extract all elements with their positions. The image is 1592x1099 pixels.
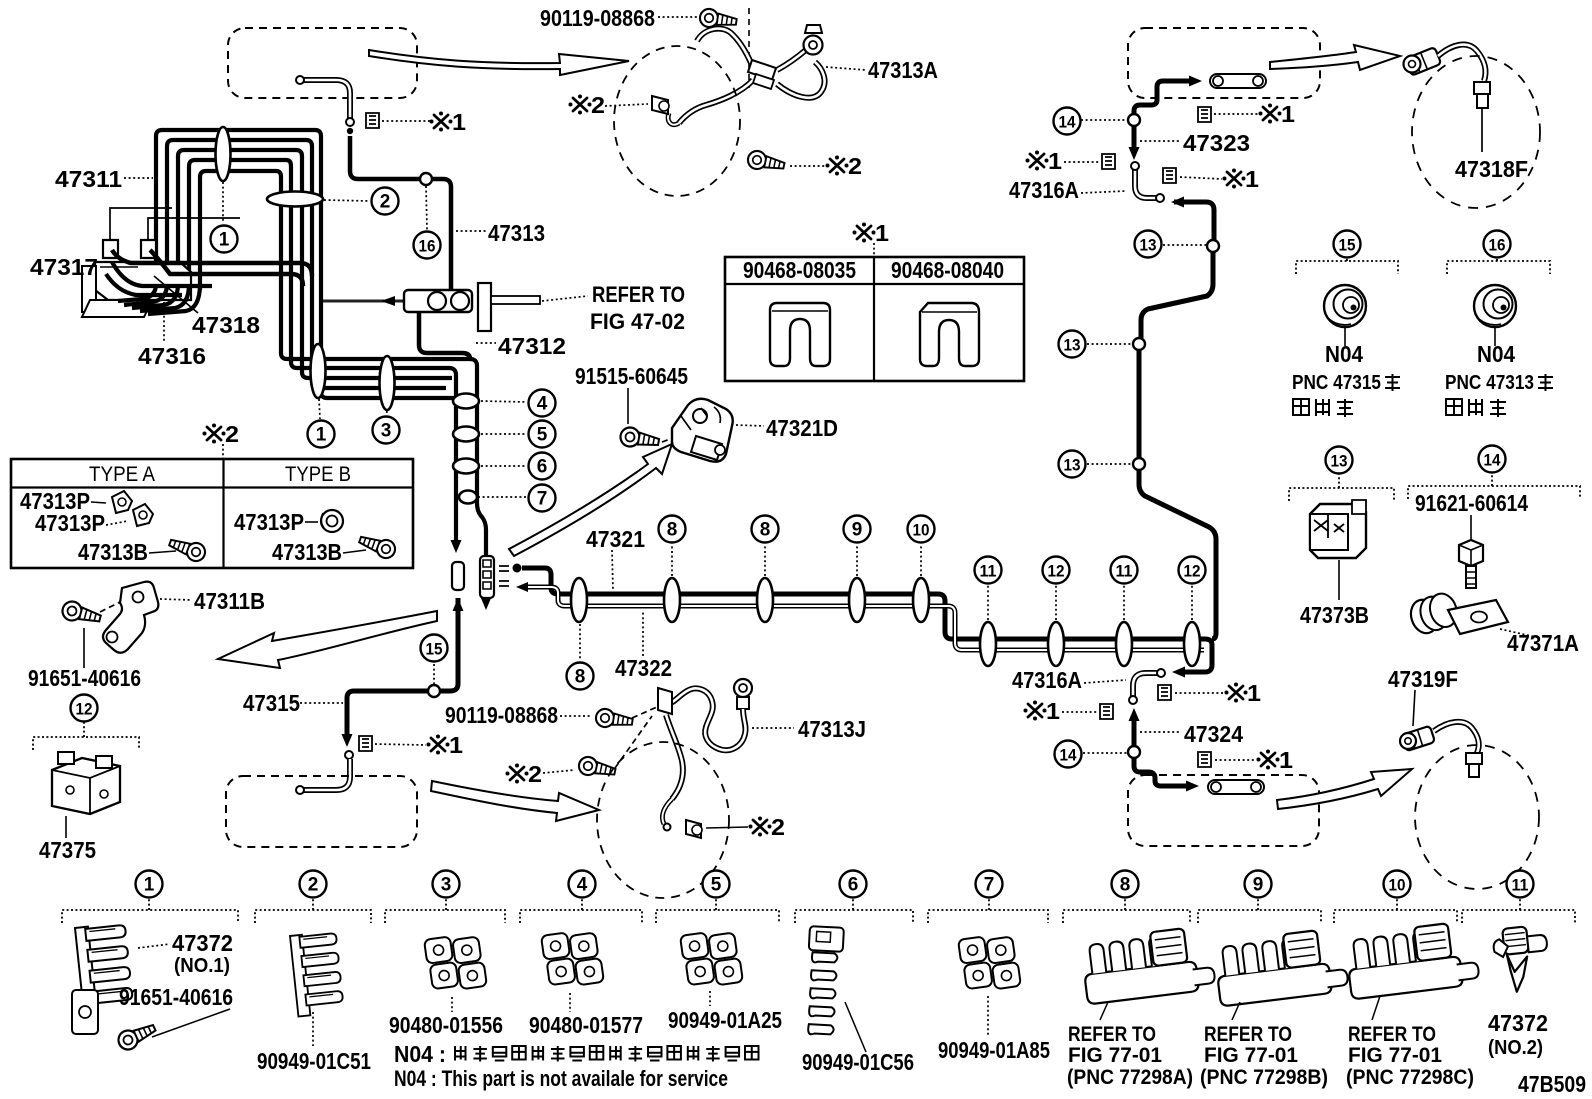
svg-text:5: 5 xyxy=(711,875,722,896)
circled 15 xyxy=(421,635,448,662)
svg-text:13: 13 xyxy=(1331,452,1348,471)
svg-text:8: 8 xyxy=(575,667,586,688)
hose end hook (front) xyxy=(668,113,679,125)
svg-text:47324: 47324 xyxy=(1184,721,1243,747)
tube 47321 (rear line No.1) xyxy=(522,568,1212,672)
node clamp 13a xyxy=(1207,240,1219,252)
svg-text:47318: 47318 xyxy=(192,312,260,338)
circled 5 (row) xyxy=(703,871,730,898)
label 47372 (NO.1) xyxy=(138,944,170,948)
caliper dashed ellipse (47318F) xyxy=(1412,56,1540,208)
circled 13 (parts column) xyxy=(1326,447,1353,474)
clamp 47373B xyxy=(1310,504,1366,558)
svg-text:1: 1 xyxy=(219,230,230,251)
brake master cylinder 47317 assembly xyxy=(95,262,191,300)
parts table 90468-08035 / 90468-08040 xyxy=(725,257,1024,381)
svg-text:REFER TO: REFER TO xyxy=(1204,1023,1292,1046)
svg-text:2: 2 xyxy=(591,92,605,118)
svg-text:47311B: 47311B xyxy=(194,588,265,614)
circled 6 (row) xyxy=(840,871,867,898)
pipe 47316A (lower) xyxy=(1133,673,1158,697)
svg-text:5: 5 xyxy=(537,425,548,446)
banjo fitting of 47313A xyxy=(804,36,823,55)
circled 14 (parts column) xyxy=(1479,446,1506,473)
clamp 12b xyxy=(1184,622,1200,666)
caliper region dashed ellipse (rear) xyxy=(597,742,729,898)
clamp 47372 (No.2) xyxy=(1492,924,1552,993)
tube bundle 47311 (5 brake tubes) xyxy=(156,130,460,398)
bolt 91621-60614 xyxy=(1459,540,1483,566)
circled 11 (row) xyxy=(1507,871,1534,898)
circled 3 (row) xyxy=(433,871,460,898)
proportioning valve assembly xyxy=(404,290,472,312)
svg-text:90468-08035: 90468-08035 xyxy=(743,257,856,283)
svg-text:11: 11 xyxy=(1512,876,1529,895)
svg-text:14: 14 xyxy=(1059,113,1076,132)
circled 10 xyxy=(908,516,935,543)
svg-text:PNC 47313: PNC 47313 xyxy=(1445,372,1534,394)
clamp 3 on lower band xyxy=(380,356,395,410)
U-clip 90468-08040 xyxy=(920,303,979,366)
tube 47313 rear run xyxy=(1171,197,1184,208)
label 47321 xyxy=(612,550,613,590)
node clamp 14 (lower) xyxy=(1128,746,1140,758)
svg-text:(PNC 77298B): (PNC 77298B) xyxy=(1200,1066,1328,1089)
svg-text:14: 14 xyxy=(1484,451,1501,470)
clamp PNC 77298A xyxy=(1080,925,1216,1004)
svg-text:11: 11 xyxy=(980,562,997,581)
grommet N04 (PNC 47315) xyxy=(1324,285,1366,327)
svg-text:8: 8 xyxy=(1120,875,1131,896)
circled 4 xyxy=(529,390,556,417)
circled 6 xyxy=(529,453,556,480)
body connector ※1 (right lower c) xyxy=(1198,752,1211,767)
junction block 47375 xyxy=(52,758,120,814)
svg-text:1: 1 xyxy=(1245,166,1259,192)
node for clamp 16 xyxy=(420,173,432,185)
flexible hose 47313J xyxy=(666,688,746,750)
svg-text:47318F: 47318F xyxy=(1455,156,1528,182)
clamp 47371A xyxy=(1407,590,1461,637)
svg-text:N04: N04 xyxy=(1477,341,1515,367)
svg-text:13: 13 xyxy=(1064,336,1081,355)
svg-text:47323: 47323 xyxy=(1183,130,1250,156)
table TYPE A / TYPE B xyxy=(11,459,413,568)
svg-text:47321D: 47321D xyxy=(766,415,838,441)
svg-text:47373B: 47373B xyxy=(1300,602,1369,628)
svg-text:16: 16 xyxy=(419,237,436,256)
hatched tube into valve xyxy=(323,300,404,303)
svg-text:8: 8 xyxy=(760,520,771,541)
svg-text:1: 1 xyxy=(1046,698,1060,724)
circled 16 (parts column) xyxy=(1484,231,1511,258)
svg-text:2: 2 xyxy=(528,761,542,787)
svg-text:8: 8 xyxy=(667,520,678,541)
svg-text:47375: 47375 xyxy=(39,837,96,863)
label 47318 xyxy=(154,276,198,313)
circled 8 xyxy=(752,516,779,543)
circled 12 xyxy=(1179,557,1206,584)
body connector ※1 (right top b) xyxy=(1030,154,1044,167)
tube 47312 xyxy=(419,312,470,359)
svg-text:9: 9 xyxy=(1253,875,1264,896)
svg-text:1: 1 xyxy=(1281,101,1295,127)
body connector ※1 (right lower b) xyxy=(1028,704,1042,717)
screw 91651-40616 (row) xyxy=(115,1019,158,1052)
body panel outline (front left, dashed) xyxy=(228,28,417,98)
clamp 10 xyxy=(913,578,929,622)
svg-text:47313: 47313 xyxy=(488,220,545,246)
clamp 5 xyxy=(453,427,479,442)
clamp 4 on tube pair xyxy=(453,394,479,409)
body panel outline (rear left, dashed) xyxy=(226,776,417,847)
svg-text:1: 1 xyxy=(875,220,889,246)
label 47313 xyxy=(456,230,486,232)
svg-text:13: 13 xyxy=(1140,236,1157,255)
clamp PNC 77298C xyxy=(1344,920,1480,999)
body connector ※1 (right top c) xyxy=(1163,168,1176,183)
svg-text:FIG 77-01: FIG 77-01 xyxy=(1348,1044,1442,1067)
svg-text:11: 11 xyxy=(1116,562,1133,581)
clamp 8c xyxy=(757,578,773,622)
svg-text:(NO.1): (NO.1) xyxy=(174,955,230,977)
alignment dashed line xyxy=(748,8,750,88)
svg-text:3: 3 xyxy=(381,421,392,442)
banjo bolt of 47313J xyxy=(734,679,752,697)
circled 10 (row) xyxy=(1384,871,1411,898)
bolt ※2 (front lower) xyxy=(746,149,786,174)
outlet port fittings on 47317 xyxy=(103,240,156,258)
grommet N04 (PNC 47313) xyxy=(1474,285,1516,327)
body connector ※1 (near 47315) xyxy=(359,736,372,751)
label 47373B xyxy=(1338,560,1340,600)
svg-text:90119-08868: 90119-08868 xyxy=(540,5,655,31)
svg-text:47372: 47372 xyxy=(1488,1010,1548,1036)
circled 13c xyxy=(1059,451,1086,478)
pipe 47316A (upper) xyxy=(1135,167,1157,198)
circled 5 xyxy=(529,421,556,448)
flexible hose 47313A xyxy=(697,29,751,63)
svg-text:1: 1 xyxy=(316,425,327,446)
body panel outline (rear right bottom, dashed) xyxy=(1128,775,1319,846)
svg-text:4: 4 xyxy=(577,875,588,896)
svg-text:1: 1 xyxy=(1247,680,1261,706)
label 47321D xyxy=(736,425,764,426)
svg-text:91621-60614: 91621-60614 xyxy=(1415,490,1528,516)
tube continuation arrows (to rear) xyxy=(451,540,462,553)
svg-text:47313J: 47313J xyxy=(798,716,866,742)
circled 12 with bracket (47375) xyxy=(71,695,98,722)
clamp 7 xyxy=(459,491,477,504)
svg-text:N04 :: N04 : xyxy=(394,1041,446,1067)
tube into rear panel xyxy=(1134,758,1188,786)
svg-text:90480-01556: 90480-01556 xyxy=(389,1012,503,1038)
svg-text:90949-01A85: 90949-01A85 xyxy=(938,1037,1050,1063)
svg-text:12: 12 xyxy=(76,700,93,719)
clamp 6 xyxy=(453,459,479,474)
detail arrow to 47321D xyxy=(509,444,672,556)
hose end hook (rear) xyxy=(662,799,672,824)
pipe 47323 xyxy=(1132,126,1137,148)
svg-text:47313B: 47313B xyxy=(272,539,342,565)
label 47311B xyxy=(160,599,192,600)
label REFER TO FIG 47-02 xyxy=(542,296,588,301)
circled 12 xyxy=(1043,557,1070,584)
svg-text:9: 9 xyxy=(852,520,863,541)
tube 47315 xyxy=(347,598,458,735)
svg-text:4: 4 xyxy=(537,394,548,415)
circled 3 xyxy=(373,417,400,444)
circled 1 (row) xyxy=(136,871,163,898)
bolt ※2 (rear upper) xyxy=(577,755,617,780)
label 47313J xyxy=(752,727,794,729)
svg-text:47321: 47321 xyxy=(586,526,645,552)
svg-text:47319F: 47319F xyxy=(1388,666,1458,692)
svg-text:2: 2 xyxy=(225,421,239,447)
47315 end arrow xyxy=(342,734,353,747)
clamp 47372 (No.1) xyxy=(75,923,134,1016)
svg-text:FIG 77-01: FIG 77-01 xyxy=(1204,1044,1298,1067)
clamp 90949-01A25 xyxy=(680,928,743,989)
svg-text:REFER TO: REFER TO xyxy=(1068,1023,1156,1046)
tube joint connector blocks xyxy=(452,562,464,590)
svg-text:2: 2 xyxy=(380,192,391,213)
caliper dashed ellipse (47319F) xyxy=(1415,745,1539,889)
47315 end fitting xyxy=(345,751,353,759)
hose fitting 47313J xyxy=(658,688,672,714)
svg-text:12: 12 xyxy=(1048,562,1065,581)
circled 2 xyxy=(372,188,399,215)
tube 47322 (rear line No.2, outline) xyxy=(524,587,1204,650)
hose 47319F xyxy=(1401,726,1435,751)
svg-text:REFER TO: REFER TO xyxy=(1348,1023,1436,1046)
svg-text:1: 1 xyxy=(1279,747,1293,773)
svg-text:15: 15 xyxy=(426,640,443,659)
load sensing valve 47321D xyxy=(672,399,733,462)
hose 47318F xyxy=(1405,47,1441,76)
svg-text:47316A: 47316A xyxy=(1009,177,1079,203)
svg-text:10: 10 xyxy=(913,521,930,540)
circled 8 (row) xyxy=(1112,871,1139,898)
circled 9 (row) xyxy=(1245,871,1272,898)
tube 47313 front run xyxy=(350,136,451,292)
clamp 90949-01A85 xyxy=(958,932,1021,993)
clamp 90949-01C51 xyxy=(290,931,344,1016)
svg-text:6: 6 xyxy=(537,457,548,478)
svg-text:47311: 47311 xyxy=(55,166,122,192)
clamp 90480-01577 xyxy=(541,928,604,989)
tube stub in front-left panel xyxy=(301,80,350,119)
svg-text:3: 3 xyxy=(441,875,452,896)
※2 leader to table xyxy=(207,427,221,440)
circled 4 (row) xyxy=(569,871,596,898)
circled 2 (row) xyxy=(300,871,327,898)
svg-text:47372: 47372 xyxy=(172,930,233,956)
clamp 11a xyxy=(980,622,996,666)
clamp 2 on bundle (horizontal ellipse) xyxy=(267,192,323,207)
caliper region dashed ellipse (front) xyxy=(614,46,740,196)
label 47311 xyxy=(124,177,153,179)
svg-text:47313B: 47313B xyxy=(78,539,148,565)
svg-text:16: 16 xyxy=(1489,236,1506,255)
label 91651-40616 (upper) xyxy=(83,628,85,668)
svg-text:15: 15 xyxy=(1339,236,1356,255)
clamp 1 on bundle (vertical ellipse) xyxy=(216,127,231,181)
svg-text:47316A: 47316A xyxy=(1012,667,1082,693)
svg-text:13: 13 xyxy=(1064,456,1081,475)
clamp PNC 77298B xyxy=(1213,927,1349,1006)
circled 1 (top) xyxy=(211,226,238,253)
※1 leader to table xyxy=(857,226,871,239)
clamp 1 on lower band xyxy=(311,344,326,398)
svg-text:47313P: 47313P xyxy=(234,509,304,535)
svg-text:47316: 47316 xyxy=(138,343,206,369)
body connector ※1 (top left) xyxy=(366,113,379,128)
svg-text:90949-01A25: 90949-01A25 xyxy=(668,1007,782,1033)
svg-text:1: 1 xyxy=(1048,148,1062,174)
body connector ※1 (right top a) xyxy=(1198,107,1211,122)
svg-text:91651-40616: 91651-40616 xyxy=(119,984,233,1010)
label 47322 xyxy=(642,612,644,656)
svg-text:10: 10 xyxy=(1389,876,1406,895)
direction arrow (to 47318F) xyxy=(1270,45,1400,70)
direction arrow (rear hose) xyxy=(431,781,599,821)
svg-text:90949-01C56: 90949-01C56 xyxy=(802,1049,914,1075)
svg-text:90468-08040: 90468-08040 xyxy=(891,257,1004,283)
svg-text:12: 12 xyxy=(1184,562,1201,581)
svg-text:FIG 47-02: FIG 47-02 xyxy=(590,309,685,334)
node clamp 13c xyxy=(1133,458,1145,470)
bundle elbows into master cylinder xyxy=(118,284,156,301)
label 47313A xyxy=(826,67,866,70)
circled 9 xyxy=(844,516,871,543)
clamp 90480-01556 xyxy=(424,932,487,993)
rear panel stub (bottom left) xyxy=(302,759,350,790)
svg-text:N04 : This part is not availal: N04 : This part is not availale for serv… xyxy=(394,1066,728,1091)
svg-text:47371A: 47371A xyxy=(1507,630,1579,656)
direction arrow (to front-left) xyxy=(218,611,437,668)
svg-text:2: 2 xyxy=(771,814,785,840)
circled 7 (row) xyxy=(976,871,1003,898)
svg-text:TYPE B: TYPE B xyxy=(285,463,351,486)
svg-text:1: 1 xyxy=(144,875,155,896)
clamp 8a on rear line xyxy=(571,578,587,622)
svg-text:(PNC 77298A): (PNC 77298A) xyxy=(1067,1066,1193,1089)
bolt 91515-60645 xyxy=(619,426,660,451)
thin pilot tubes from ports xyxy=(110,208,240,240)
joint dot under stub xyxy=(347,128,353,134)
bracket 47311B xyxy=(103,582,158,653)
circled 8 (below) xyxy=(567,663,594,690)
body connector ※1 (right lower a) xyxy=(1158,685,1171,700)
svg-text:47315: 47315 xyxy=(243,690,300,716)
label 47375 xyxy=(65,816,67,838)
label 47371A xyxy=(1500,629,1540,638)
clamp 11b xyxy=(1116,622,1132,666)
svg-text:47313A: 47313A xyxy=(868,57,938,83)
clamp 90949-01C56 xyxy=(804,926,844,1036)
svg-text:2: 2 xyxy=(848,153,862,179)
circled 11 xyxy=(975,557,1002,584)
svg-text:2: 2 xyxy=(308,875,319,896)
svg-text:PNC 47315: PNC 47315 xyxy=(1292,372,1381,394)
circled 7 xyxy=(529,485,556,512)
svg-text:90949-01C51: 90949-01C51 xyxy=(257,1048,371,1074)
direction arrow to front hose detail xyxy=(369,50,629,75)
svg-text:6: 6 xyxy=(848,875,859,896)
svg-text:47313P: 47313P xyxy=(35,510,105,536)
svg-text:(PNC 77298C): (PNC 77298C) xyxy=(1346,1066,1474,1089)
svg-text:1: 1 xyxy=(449,732,463,758)
circled 13b xyxy=(1059,331,1086,358)
svg-text:REFER TO: REFER TO xyxy=(592,282,685,307)
svg-text:14: 14 xyxy=(1060,746,1077,765)
clamp 9 xyxy=(849,578,865,622)
pipe sleeve in panel (top) xyxy=(1210,74,1266,88)
node clamp 13b xyxy=(1133,338,1145,350)
label 47317 xyxy=(100,266,138,268)
node clamp 14 (top) xyxy=(1128,114,1140,126)
pipe 47324 xyxy=(1129,708,1140,721)
U-clip 90468-08035 xyxy=(770,303,830,366)
bolt 90119-08868 (rear) xyxy=(595,708,634,731)
svg-text:47317: 47317 xyxy=(30,254,98,280)
clamp 8b xyxy=(664,578,680,622)
circled 1 (lower) xyxy=(308,421,335,448)
svg-text:90119-08868: 90119-08868 xyxy=(445,702,558,728)
bolt 91651-40616 (upper) xyxy=(60,599,102,627)
circled 14 (top) xyxy=(1054,108,1081,135)
pipe sleeve in panel (bottom) xyxy=(1208,780,1264,794)
circled 16 xyxy=(414,232,441,259)
hose bracket fitting xyxy=(748,60,776,80)
svg-text:1: 1 xyxy=(452,109,466,135)
node for clamp 15 xyxy=(428,685,440,697)
bolt 90119-08868 (front) xyxy=(699,8,738,31)
tube 47318 elbows at master cylinder xyxy=(112,250,312,276)
svg-text:TYPE A: TYPE A xyxy=(89,463,155,486)
circled 14 (lower) xyxy=(1055,741,1082,768)
circled 11 xyxy=(1111,557,1138,584)
circled 15 (parts column) xyxy=(1334,231,1361,258)
svg-text:FIG 77-01: FIG 77-01 xyxy=(1068,1044,1162,1067)
circled 13a xyxy=(1135,231,1162,258)
svg-text:90480-01577: 90480-01577 xyxy=(529,1012,643,1038)
svg-text:N04: N04 xyxy=(1325,341,1363,367)
svg-text:47312: 47312 xyxy=(498,333,566,359)
svg-text:7: 7 xyxy=(537,489,548,510)
label 47315 xyxy=(300,702,343,704)
label 47316 xyxy=(163,302,165,342)
circled 8 xyxy=(659,516,686,543)
svg-text:91651-40616: 91651-40616 xyxy=(28,665,141,691)
direction arrow (to 47319F) xyxy=(1277,769,1412,809)
svg-text:47B509: 47B509 xyxy=(1518,1071,1586,1097)
clip nut ※2 (front upper) xyxy=(652,96,668,114)
svg-text:7: 7 xyxy=(984,875,995,896)
svg-text:47322: 47322 xyxy=(615,655,672,681)
body panel outline (rear right top, dashed) xyxy=(1128,28,1320,98)
clip nut ※2 (rear lower) xyxy=(686,820,701,838)
tube 47313 rear entry xyxy=(1134,96,1157,114)
clamp 12a xyxy=(1048,622,1064,666)
svg-text:91515-60645: 91515-60645 xyxy=(575,363,688,389)
tube arrow into panel (top) xyxy=(1157,81,1191,96)
svg-text:(NO.2): (NO.2) xyxy=(1488,1037,1543,1059)
